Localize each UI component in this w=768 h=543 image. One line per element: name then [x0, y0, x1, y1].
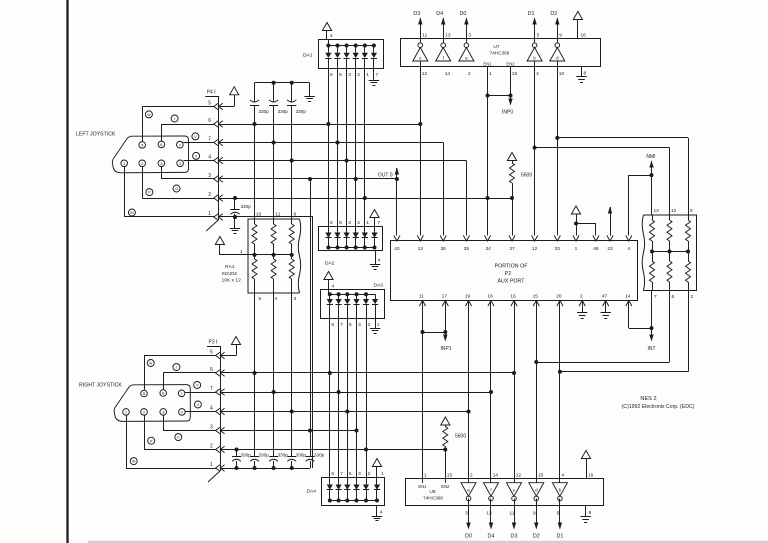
svg-text:3: 3	[210, 424, 213, 430]
svg-text:INP0: INP0	[502, 110, 513, 116]
svg-text:11: 11	[422, 32, 427, 38]
svg-text:8: 8	[589, 510, 592, 516]
svg-text:D0: D0	[465, 533, 472, 539]
svg-text:P2: P2	[505, 271, 512, 277]
svg-text:D4: D4	[488, 533, 495, 539]
svg-text:NES 2: NES 2	[640, 396, 656, 402]
svg-text:INT: INT	[647, 346, 655, 352]
svg-text:OUT 0: OUT 0	[378, 172, 393, 178]
svg-text:12: 12	[516, 473, 522, 479]
svg-text:330p: 330p	[296, 453, 307, 458]
svg-text:4: 4	[378, 258, 381, 264]
svg-text:D1: D1	[556, 533, 563, 539]
svg-text:34: 34	[486, 246, 492, 252]
svg-text:D3: D3	[511, 533, 518, 539]
svg-text:2: 2	[468, 71, 471, 77]
svg-text:1: 1	[210, 462, 213, 468]
svg-text:7: 7	[210, 386, 213, 392]
svg-text:19: 19	[465, 294, 471, 300]
svg-text:4: 4	[380, 509, 383, 515]
svg-text:9: 9	[559, 32, 562, 38]
svg-text:O: O	[175, 187, 178, 191]
svg-text:18: 18	[487, 294, 493, 300]
svg-text:43: 43	[394, 246, 400, 252]
svg-text:EN2: EN2	[506, 62, 515, 67]
svg-text:4: 4	[208, 154, 211, 160]
svg-text:1: 1	[366, 220, 369, 226]
svg-text:16: 16	[581, 32, 587, 38]
svg-text:13: 13	[654, 208, 660, 214]
svg-text:W: W	[149, 362, 153, 366]
svg-text:2: 2	[368, 471, 371, 477]
svg-text:7: 7	[208, 136, 211, 142]
svg-text:DA3: DA3	[374, 282, 384, 288]
svg-text:3: 3	[358, 471, 361, 477]
svg-text:20: 20	[556, 294, 562, 300]
svg-text:14: 14	[493, 473, 499, 479]
svg-text:3: 3	[358, 322, 361, 328]
svg-text:D2: D2	[550, 11, 557, 17]
svg-text:D0: D0	[459, 11, 466, 17]
svg-text:48: 48	[593, 246, 599, 252]
svg-text:13: 13	[418, 246, 424, 252]
svg-text:1: 1	[377, 322, 380, 328]
svg-text:7: 7	[378, 220, 381, 226]
svg-text:DA4: DA4	[307, 489, 317, 495]
svg-text:U8: U8	[429, 489, 436, 495]
svg-text:3: 3	[348, 72, 351, 78]
svg-text:10: 10	[256, 212, 262, 218]
svg-text:PORTION OF: PORTION OF	[495, 263, 529, 269]
svg-text:330p: 330p	[259, 109, 270, 114]
svg-text:8: 8	[690, 208, 693, 214]
svg-text:4: 4	[330, 33, 333, 39]
svg-text:1: 1	[366, 72, 369, 78]
svg-text:330p: 330p	[278, 109, 289, 114]
svg-text:23: 23	[607, 246, 613, 252]
svg-text:9: 9	[533, 511, 536, 517]
svg-text:10K x 12: 10K x 12	[222, 278, 242, 284]
svg-text:1: 1	[575, 246, 578, 252]
svg-text:5: 5	[210, 349, 213, 355]
svg-text:3: 3	[208, 173, 211, 179]
svg-text:2: 2	[580, 294, 583, 300]
svg-text:W: W	[147, 113, 151, 117]
svg-text:5600: 5600	[521, 173, 532, 179]
svg-text:10: 10	[559, 71, 565, 77]
svg-text:P3 I: P3 I	[209, 339, 218, 345]
svg-text:2: 2	[357, 220, 360, 226]
svg-text:9: 9	[294, 212, 297, 218]
svg-text:1: 1	[240, 249, 243, 255]
svg-text:47: 47	[602, 294, 608, 300]
svg-text:15: 15	[512, 71, 518, 77]
svg-text:330p: 330p	[296, 109, 307, 114]
svg-text:D2: D2	[533, 533, 540, 539]
svg-text:EN1: EN1	[418, 484, 427, 489]
svg-text:7: 7	[654, 294, 657, 300]
svg-text:EN1: EN1	[483, 62, 492, 67]
svg-text:2: 2	[368, 322, 371, 328]
svg-text:6: 6	[210, 367, 213, 373]
svg-text:12: 12	[422, 71, 428, 77]
svg-text:I: I	[176, 366, 177, 370]
svg-text:D4: D4	[436, 11, 443, 17]
svg-text:IN: IN	[130, 211, 134, 215]
svg-text:4: 4	[275, 296, 278, 302]
svg-text:EN2: EN2	[441, 484, 450, 489]
svg-text:AUX PORT: AUX PORT	[498, 278, 526, 284]
svg-text:O: O	[177, 436, 180, 440]
svg-text:RIGHT JOYSTICK: RIGHT JOYSTICK	[79, 383, 122, 389]
svg-text:5: 5	[330, 220, 333, 226]
svg-text:I: I	[174, 117, 175, 121]
svg-text:1: 1	[381, 471, 384, 477]
svg-text:10: 10	[538, 473, 544, 479]
svg-text:7: 7	[340, 471, 343, 477]
svg-text:5: 5	[557, 511, 560, 517]
svg-text:D1: D1	[528, 11, 535, 17]
svg-text:D3: D3	[413, 11, 420, 17]
svg-text:6: 6	[331, 471, 334, 477]
svg-text:33: 33	[555, 246, 561, 252]
svg-text:3: 3	[294, 296, 297, 302]
svg-text:12: 12	[532, 246, 538, 252]
svg-text:14: 14	[625, 294, 631, 300]
svg-text:6: 6	[208, 118, 211, 124]
svg-text:6: 6	[331, 322, 334, 328]
svg-text:(C)1992 Electronix Corp. (EDC): (C)1992 Electronix Corp. (EDC)	[622, 404, 695, 410]
svg-text:2: 2	[210, 443, 213, 449]
svg-text:8: 8	[584, 71, 587, 77]
svg-text:5: 5	[537, 32, 540, 38]
svg-text:6: 6	[339, 220, 342, 226]
svg-text:3: 3	[468, 32, 471, 38]
svg-text:1: 1	[424, 473, 427, 479]
svg-text:330p: 330p	[259, 453, 270, 458]
svg-text:RA1: RA1	[225, 264, 235, 270]
svg-text:16: 16	[588, 473, 594, 479]
svg-text:4: 4	[332, 283, 335, 289]
svg-text:6: 6	[330, 72, 333, 78]
svg-text:330p: 330p	[314, 453, 325, 458]
svg-text:5: 5	[208, 100, 211, 106]
svg-text:4: 4	[536, 71, 539, 77]
svg-text:7: 7	[376, 72, 379, 78]
svg-text:P4 I: P4 I	[207, 90, 216, 96]
svg-text:2: 2	[208, 192, 211, 198]
svg-text:330p: 330p	[241, 453, 252, 458]
svg-text:5: 5	[339, 72, 342, 78]
svg-text:13: 13	[486, 511, 492, 517]
svg-text:1: 1	[489, 71, 492, 77]
svg-text:6: 6	[672, 294, 675, 300]
svg-text:2: 2	[357, 72, 360, 78]
svg-text:5: 5	[259, 296, 262, 302]
svg-text:15: 15	[533, 294, 539, 300]
svg-text:36: 36	[441, 246, 447, 252]
svg-text:15: 15	[447, 473, 453, 479]
svg-text:17: 17	[442, 294, 448, 300]
svg-text:DA2: DA2	[325, 261, 335, 267]
svg-text:NMI: NMI	[646, 154, 655, 160]
svg-text:SI2J03: SI2J03	[222, 271, 238, 277]
svg-text:INP1: INP1	[440, 346, 451, 352]
svg-text:12: 12	[671, 208, 677, 214]
svg-text:37: 37	[509, 246, 515, 252]
svg-text:2: 2	[470, 473, 473, 479]
svg-text:DA1: DA1	[303, 53, 313, 59]
svg-text:3: 3	[465, 511, 468, 517]
svg-text:13: 13	[445, 32, 451, 38]
svg-text:1: 1	[208, 211, 211, 217]
svg-text:4: 4	[562, 473, 565, 479]
svg-text:5: 5	[349, 471, 352, 477]
svg-text:330p: 330p	[241, 204, 252, 209]
svg-text:IN: IN	[132, 460, 136, 464]
svg-text:7: 7	[340, 322, 343, 328]
svg-text:4: 4	[627, 246, 630, 252]
svg-text:5600: 5600	[455, 434, 466, 440]
svg-text:4: 4	[210, 405, 213, 411]
svg-text:11: 11	[275, 212, 280, 218]
svg-text:11: 11	[419, 294, 424, 300]
svg-text:2: 2	[691, 294, 694, 300]
svg-text:330p: 330p	[278, 453, 289, 458]
svg-text:3: 3	[348, 220, 351, 226]
svg-text:16: 16	[510, 294, 516, 300]
svg-text:U7: U7	[493, 44, 500, 50]
svg-text:35: 35	[464, 246, 470, 252]
svg-text:LEFT JOYSTICK: LEFT JOYSTICK	[76, 131, 116, 137]
svg-text:5: 5	[349, 322, 352, 328]
svg-text:14: 14	[445, 71, 451, 77]
svg-text:11: 11	[510, 511, 515, 517]
svg-text:74HC368: 74HC368	[423, 496, 443, 501]
svg-text:74HC368: 74HC368	[490, 50, 510, 55]
